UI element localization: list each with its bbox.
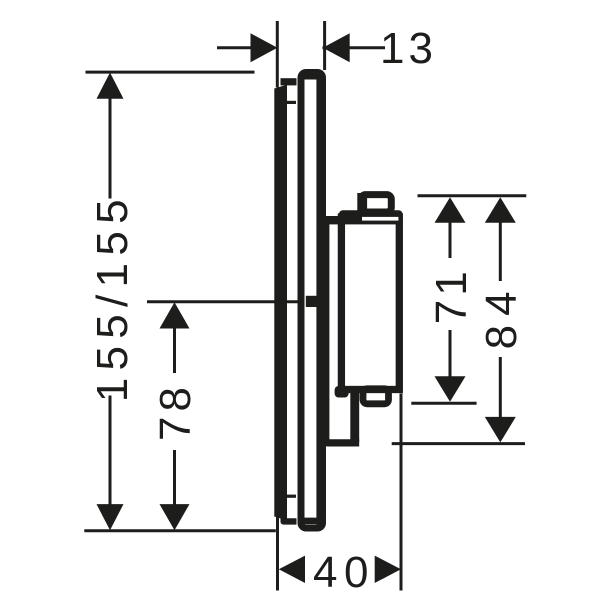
dim 13 right tail: [323, 46, 386, 49]
back plate inner bottom line: [300, 518, 323, 525]
dim 40 right extension line: [400, 394, 403, 591]
dim 71 upper line: [449, 221, 452, 258]
flange lower band: [319, 216, 403, 224]
dim 78 down arrowhead: [160, 504, 190, 530]
dim 40 left arrowhead pointing left: [279, 556, 305, 583]
dim 13 left extension line: [276, 21, 279, 88]
bottom cap left patch: [335, 386, 349, 398]
svg-text:78: 78: [151, 382, 200, 441]
dim 155 up arrowhead: [97, 73, 124, 99]
dim 40 left extension line: [276, 515, 279, 591]
dim 78 upper line: [173, 327, 176, 373]
clip tab bottom closing line: [284, 495, 297, 498]
dim 13 right arrowhead pointing right: [251, 33, 278, 62]
valve body box: [341, 217, 399, 390]
clip tab top closing line: [284, 101, 297, 104]
dim 71 up arrowhead: [435, 197, 466, 223]
front plate (escutcheon, side view, solid): [274, 85, 287, 521]
flange upper band: [339, 210, 403, 220]
dim 78 lower line: [173, 450, 176, 505]
dim 78 up arrowhead: [160, 302, 190, 328]
dim 155 lower line: [109, 396, 112, 506]
dim 71-84 top extension line: [418, 194, 527, 197]
svg-text:13: 13: [380, 24, 437, 73]
dim 84 bottom extension line: [392, 442, 525, 445]
top knob left leg patch: [357, 193, 367, 215]
dim 155 down arrowhead: [97, 504, 124, 530]
dim 71 bottom extension line: [411, 402, 476, 405]
clip tab bottom band: [281, 518, 297, 524]
svg-text:84: 84: [477, 282, 526, 349]
svg-text:40: 40: [313, 548, 375, 597]
valve rough-in right bar: [350, 392, 359, 442]
dim 155 upper line: [109, 97, 112, 199]
dim 13 left arrowhead pointing left: [323, 33, 350, 62]
svg-text:155/155: 155/155: [88, 192, 137, 402]
valve rough-in vertical line: [326, 218, 330, 443]
dim 84 up arrowhead: [485, 197, 516, 223]
mid-height fixing clip blob: [306, 296, 317, 307]
back plate outline: [301, 73, 323, 529]
back plate inner top line: [300, 76, 323, 80]
bottom knob outline: [363, 389, 389, 404]
dim 155 top extension line: [86, 71, 255, 74]
flange white sliver: [362, 217, 398, 221]
svg-text:71: 71: [427, 267, 476, 324]
valve rough-in bottom bar: [324, 439, 360, 446]
dim 13 left tail: [217, 46, 252, 49]
dim 40 right arrowhead pointing right: [375, 556, 401, 583]
dim 71 lower line: [449, 330, 452, 378]
dim 71 down arrowhead: [435, 376, 466, 402]
dim 84 lower line: [499, 357, 502, 418]
dim 78 top extension line: [147, 300, 298, 303]
dim 13 right extension line: [323, 21, 326, 70]
dim 84 upper line: [499, 221, 502, 281]
top knob outline: [361, 195, 391, 212]
dim 155 bottom extension line: [84, 529, 275, 532]
clip tab top band: [281, 78, 297, 85]
dim 84 down arrowhead: [485, 417, 516, 443]
back plate inner right line: [316, 74, 320, 526]
